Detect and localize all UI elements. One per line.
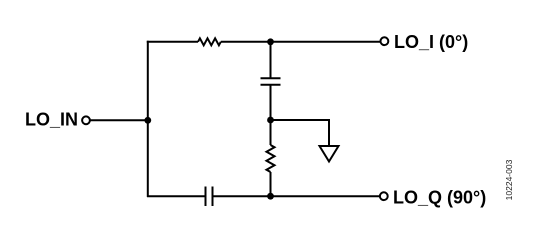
- terminal LO_I: [381, 37, 389, 45]
- node B (R2 / bottom wire): [267, 193, 274, 200]
- wire capacitor C1 to node A: [270, 85, 272, 120]
- svg-text:10224-003: 10224-003: [504, 159, 514, 200]
- capacitor C2 (series, left plate): [205, 187, 207, 207]
- node junction LO_IN bus: [144, 117, 151, 124]
- resistor R1 (series, top branch): [198, 38, 221, 45]
- svg-text:LO_Q (90°): LO_Q (90°): [393, 188, 486, 208]
- terminal LO_Q: [380, 192, 388, 200]
- wire junction down to capacitor C1: [270, 42, 272, 78]
- capacitor C1 (shunt, top plate): [261, 77, 281, 79]
- wire capacitor C2 to LO_Q terminal: [213, 195, 380, 197]
- node junction top (resistor/cap): [267, 38, 274, 45]
- svg-text:LO_IN: LO_IN: [25, 110, 78, 130]
- ground: [320, 146, 339, 162]
- capacitor C2 (series, right plate): [212, 187, 214, 207]
- wire bottom left of capacitor C2: [147, 195, 205, 197]
- wire ground vertical: [328, 119, 330, 146]
- resistor R2 (shunt, vertical): [267, 145, 275, 172]
- wire resistor R2 to node B: [270, 172, 272, 196]
- wire left vertical bus: [147, 41, 149, 197]
- wire resistor to LO_I terminal: [221, 41, 380, 43]
- capacitor C1 (shunt, bottom plate): [261, 84, 281, 86]
- wire top horizontal left of resistor: [147, 41, 198, 43]
- terminal LO_IN: [82, 116, 90, 124]
- wire node A down to resistor R2: [270, 120, 272, 145]
- wire LO_IN to left junction: [91, 119, 149, 121]
- svg-text:LO_I (0°): LO_I (0°): [394, 32, 468, 52]
- wire node A to ground drop: [271, 119, 330, 121]
- node A (cap C1 / R2 / ground tap): [267, 117, 274, 124]
